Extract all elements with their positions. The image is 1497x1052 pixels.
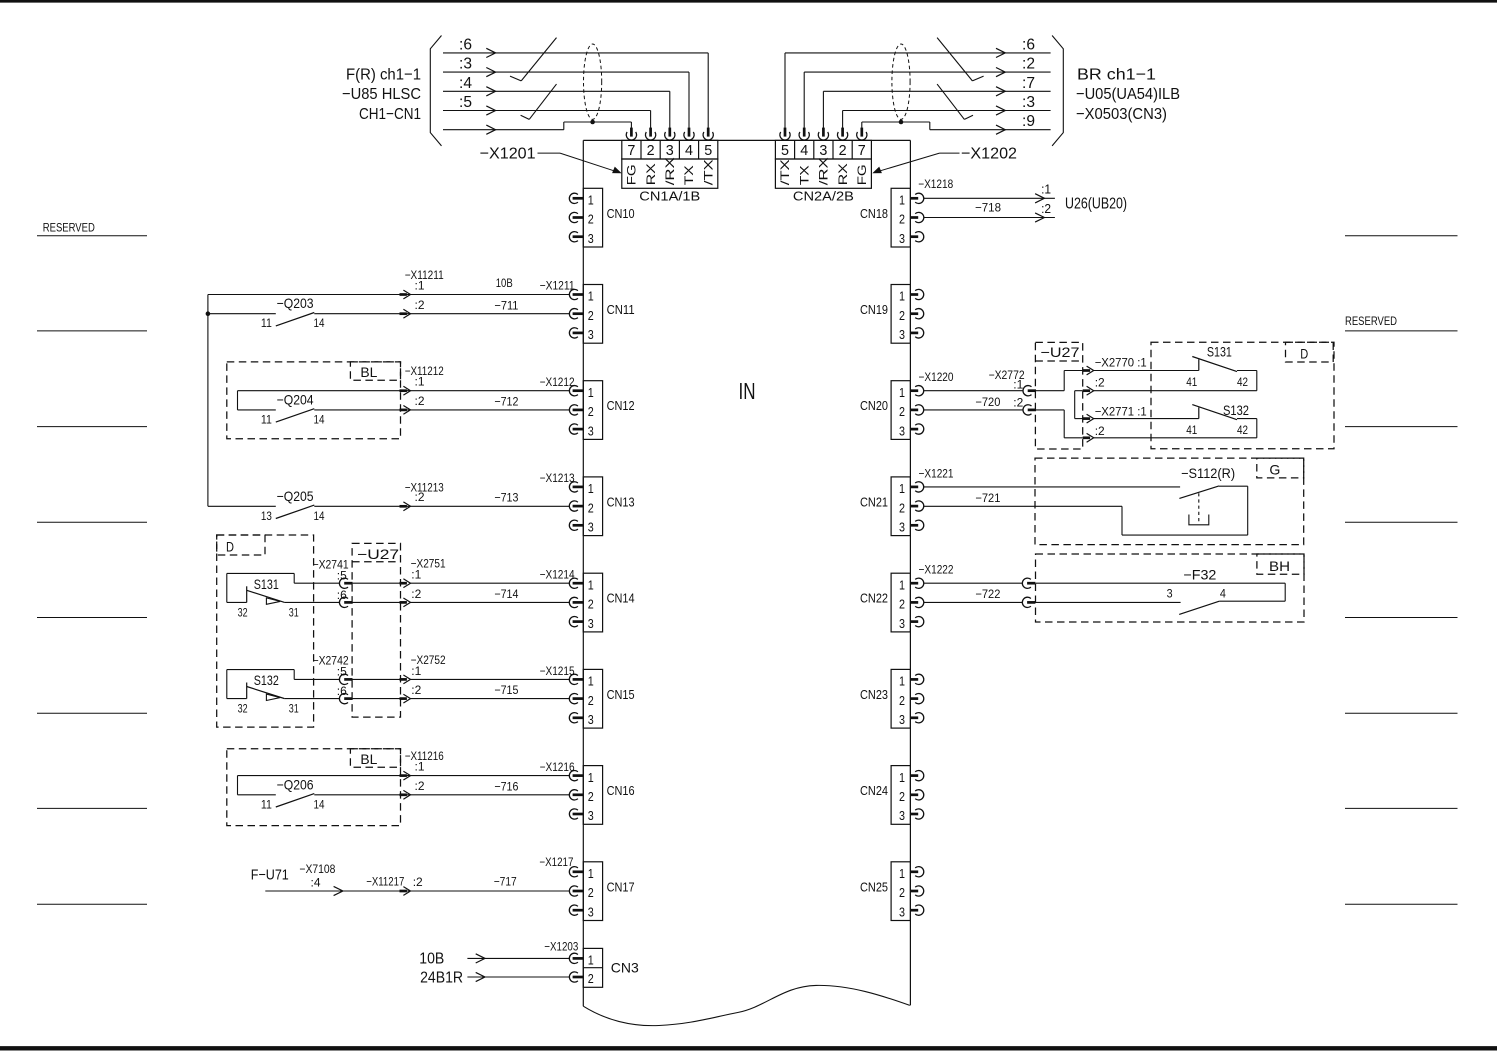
left reserved line 5	[37, 617, 147, 619]
X2751 plug :1	[400, 582, 407, 585]
fuse F32 wire upper	[1036, 582, 1286, 584]
svg-text:3: 3	[819, 143, 827, 159]
CN1A top pin 3	[665, 132, 675, 140]
svg-text:−715: −715	[494, 683, 518, 697]
left shield wire to pin7 FG	[443, 129, 564, 131]
wire CN21 pin2 to S112	[924, 505, 1122, 507]
wire X2741-X2751 pin2	[353, 601, 400, 603]
svg-text:3: 3	[899, 712, 905, 727]
fuse F32 blade	[1179, 601, 1219, 614]
connector CN19	[891, 285, 910, 344]
svg-text:D: D	[1300, 346, 1308, 362]
svg-text::1: :1	[411, 664, 421, 678]
svg-text:−X1201: −X1201	[480, 146, 536, 163]
CN2A top pin 2	[837, 132, 847, 140]
svg-text:CN12: CN12	[607, 399, 635, 413]
right wire :6 from pin5	[784, 53, 786, 128]
svg-text:2: 2	[899, 404, 905, 419]
svg-text:1: 1	[588, 770, 594, 785]
switch Q204	[238, 409, 276, 411]
connector CN18	[891, 188, 910, 247]
connector CN3	[583, 948, 602, 987]
svg-text::3: :3	[459, 56, 472, 73]
right shield ellipse	[892, 44, 910, 119]
svg-text:11: 11	[261, 318, 272, 330]
svg-text:1: 1	[899, 193, 905, 208]
svg-text:−X1217: −X1217	[539, 855, 573, 869]
wire X2771:1 to S132	[1094, 418, 1199, 420]
connector CN24	[891, 766, 910, 825]
svg-text:1: 1	[899, 289, 905, 304]
svg-text::2: :2	[411, 587, 421, 601]
svg-text:−X1218: −X1218	[918, 177, 953, 191]
left wire :3 to pin4	[443, 71, 689, 73]
svg-text:14: 14	[314, 511, 326, 523]
svg-text:2: 2	[899, 212, 905, 227]
BH label box	[1257, 554, 1304, 574]
dashed box G	[1035, 458, 1304, 544]
connector CN14	[583, 573, 602, 632]
U27 internal link 2	[1075, 390, 1083, 392]
BL upper label box	[350, 362, 400, 380]
svg-text:3: 3	[899, 904, 905, 919]
svg-text:G: G	[1269, 462, 1280, 478]
svg-text:CN25: CN25	[860, 880, 888, 894]
svg-text::2: :2	[415, 779, 425, 793]
svg-text:3: 3	[588, 423, 594, 438]
svg-text:F−U71: F−U71	[251, 866, 289, 883]
svg-text::1: :1	[415, 279, 425, 293]
svg-text:FG: FG	[855, 164, 869, 185]
svg-text:31: 31	[289, 704, 299, 716]
D right label box	[1286, 342, 1334, 362]
svg-text:2: 2	[588, 597, 594, 612]
switch S131 right	[1198, 359, 1200, 370]
svg-text:42: 42	[1237, 425, 1248, 437]
connector CN2A/2B pin number row	[775, 140, 871, 159]
svg-text:−Q206: −Q206	[277, 776, 314, 792]
CN1A/1B label box	[622, 159, 718, 188]
right twist mark pair 1	[937, 38, 972, 81]
svg-text:−Q205: −Q205	[277, 488, 314, 504]
svg-text::1: :1	[415, 760, 425, 774]
svg-text:3: 3	[666, 143, 674, 159]
wire X2752 to CN15 pin2	[411, 698, 570, 700]
wire X2742-X2752 pin1	[353, 678, 400, 680]
svg-text:U26(UB20): U26(UB20)	[1065, 196, 1127, 213]
connector CN21	[891, 477, 910, 536]
svg-text:10B: 10B	[419, 951, 444, 968]
U27 left label box	[352, 561, 400, 563]
dashed box D right	[1151, 342, 1334, 449]
wire S132 return to X2771:2	[1094, 437, 1257, 439]
svg-text:3: 3	[588, 904, 594, 919]
X2751 plug :2	[400, 601, 407, 604]
svg-text:F(R) ch1−1: F(R) ch1−1	[346, 66, 421, 83]
wire X2751 to CN14 pin2	[411, 601, 570, 603]
svg-text:−716: −716	[494, 779, 518, 793]
svg-text:2: 2	[588, 789, 594, 804]
U27 internal link 1	[1036, 390, 1064, 392]
svg-text:24B1R: 24B1R	[420, 970, 463, 987]
svg-text:3: 3	[899, 423, 905, 438]
dashed box BL upper	[227, 362, 401, 439]
X2771 plug :1	[1083, 417, 1090, 420]
svg-text:1: 1	[588, 481, 594, 496]
svg-text:2: 2	[899, 789, 905, 804]
svg-text:CN3: CN3	[611, 959, 639, 975]
svg-text:IN: IN	[739, 378, 756, 404]
wire CN16 pin1	[238, 775, 570, 777]
svg-text:TX: TX	[682, 165, 696, 185]
svg-text:−Q204: −Q204	[277, 391, 314, 407]
svg-text:2: 2	[899, 597, 905, 612]
svg-text::2: :2	[413, 875, 423, 889]
svg-text:2: 2	[588, 500, 594, 515]
BH socket pin2	[1022, 597, 1031, 607]
svg-text:11: 11	[261, 414, 272, 426]
svg-text::6: :6	[337, 588, 347, 602]
S112 linkage dashed	[1198, 493, 1200, 524]
CN2A cell divider 4	[851, 140, 853, 159]
left reserved line 7	[37, 807, 147, 809]
wire F-U71 to CN17 pin2	[265, 890, 569, 892]
switch Q205	[208, 505, 276, 507]
svg-text:CN24: CN24	[860, 784, 888, 798]
svg-text::5: :5	[459, 94, 472, 111]
svg-text:/TX: /TX	[778, 159, 792, 185]
svg-text::1: :1	[1041, 181, 1051, 196]
CN1A top pin 2	[645, 132, 655, 140]
X2741 socket :5	[339, 578, 348, 588]
svg-text:−S112(R): −S112(R)	[1181, 465, 1235, 481]
X2772 socket :2	[1023, 405, 1032, 415]
right reserved line 7	[1345, 807, 1458, 809]
svg-text::6: :6	[1022, 36, 1035, 53]
svg-text::5: :5	[337, 568, 347, 582]
left cable brace	[430, 36, 441, 146]
X2742 socket :5	[339, 674, 348, 684]
page top border bar	[0, 0, 1497, 3]
svg-text:/TX: /TX	[701, 159, 715, 185]
svg-text:41: 41	[1186, 425, 1197, 437]
svg-text:2: 2	[588, 308, 594, 323]
CN2A cell divider 3	[832, 140, 834, 159]
connector CN17	[583, 862, 602, 921]
connector CN15	[583, 669, 602, 728]
svg-text:−X1216: −X1216	[540, 760, 575, 774]
svg-text::2: :2	[415, 394, 425, 408]
svg-text:CN2A/2B: CN2A/2B	[793, 190, 854, 204]
D left label box	[217, 535, 265, 555]
svg-text:5: 5	[781, 143, 789, 159]
svg-text::9: :9	[1022, 113, 1035, 130]
svg-text:CN15: CN15	[607, 688, 635, 702]
right wire :2 from pin4	[803, 72, 805, 128]
CN1A top pin 5	[703, 132, 713, 140]
svg-text:−711: −711	[494, 298, 518, 312]
svg-text:−X1221: −X1221	[919, 466, 954, 480]
right reserved line 2	[1345, 330, 1458, 332]
wire S131 return to X2770:2	[1094, 390, 1257, 392]
svg-text:CN16: CN16	[607, 784, 635, 798]
svg-text:CN14: CN14	[607, 592, 635, 606]
svg-text:42: 42	[1237, 377, 1248, 389]
right reserved line 8	[1345, 903, 1458, 905]
wire CN22 pin2	[924, 601, 1023, 603]
svg-text:−Q203: −Q203	[277, 295, 314, 311]
svg-text:14: 14	[314, 318, 326, 330]
svg-text:2: 2	[839, 143, 847, 159]
svg-text:3: 3	[588, 616, 594, 631]
right wire :3 from pin2	[842, 111, 844, 129]
CN2A cell divider 1	[794, 140, 796, 159]
Q204 drop wire	[237, 391, 239, 410]
wire CN20 pin1 to X2772:1	[924, 390, 1023, 392]
svg-text:−X1222: −X1222	[919, 562, 954, 576]
CN2A cell divider 2	[813, 140, 815, 159]
left reserved line 3	[37, 426, 147, 428]
module IN right edge	[909, 140, 911, 1005]
svg-text:−720: −720	[975, 395, 1000, 409]
svg-text:41: 41	[1186, 377, 1197, 389]
svg-text:4: 4	[800, 143, 808, 159]
svg-text:FG: FG	[625, 164, 639, 185]
svg-text:−X1212: −X1212	[540, 375, 575, 389]
junction dot Q203 rail	[206, 311, 211, 316]
X2771 plug :2	[1083, 436, 1090, 439]
svg-text:S131: S131	[1207, 343, 1232, 359]
CN1A top pin 4	[684, 132, 694, 140]
svg-text::1: :1	[1013, 377, 1023, 391]
svg-text:−722: −722	[975, 587, 1000, 601]
svg-text:S132: S132	[1223, 402, 1249, 418]
BL lower label box	[350, 749, 400, 767]
svg-text:−718: −718	[975, 201, 1001, 215]
left reserved line 8	[37, 903, 147, 905]
left twist mark pair 2	[529, 84, 556, 119]
svg-text:14: 14	[314, 799, 326, 811]
svg-text:−713: −713	[494, 491, 518, 505]
dashed box U27 left	[352, 543, 400, 717]
wire X2770:1 to S131	[1094, 370, 1199, 372]
wire CN11 pin1 10B	[208, 294, 570, 296]
svg-text:10B: 10B	[496, 276, 513, 290]
svg-text:32: 32	[238, 704, 248, 716]
svg-text:S132: S132	[254, 672, 279, 688]
switch S132 left	[227, 669, 294, 671]
right cable brace	[1052, 36, 1063, 146]
svg-text:−X1214: −X1214	[540, 568, 575, 582]
svg-text:1: 1	[588, 289, 594, 304]
svg-text:CN20: CN20	[860, 399, 888, 413]
svg-text::5: :5	[337, 665, 347, 679]
CN2A top pin 7	[857, 132, 867, 140]
svg-text:−714: −714	[494, 587, 518, 601]
right wire :7 from pin3	[822, 91, 824, 128]
svg-text:CN19: CN19	[860, 303, 888, 317]
U27 internal link 3	[1036, 409, 1064, 411]
connector CN12	[583, 381, 602, 440]
svg-text:−X7108: −X7108	[299, 862, 335, 876]
svg-text::2: :2	[1095, 424, 1105, 438]
svg-text:RESERVED: RESERVED	[1345, 314, 1397, 328]
CN2A top pin 4	[799, 132, 809, 140]
svg-text::2: :2	[411, 683, 421, 697]
S112 actuator bracket	[1189, 515, 1209, 525]
wire CN18 pin2 to U26 :2	[924, 217, 1055, 219]
svg-text:2: 2	[899, 693, 905, 708]
svg-text:1: 1	[899, 385, 905, 400]
svg-text::6: :6	[459, 36, 472, 53]
connector CN25	[891, 862, 910, 921]
svg-text::2: :2	[415, 298, 425, 312]
wire 10B to CN3 pin1	[467, 957, 569, 959]
right reserved line 6	[1345, 712, 1458, 714]
svg-text:−F32: −F32	[1183, 567, 1216, 583]
wire X2752 to CN15 pin1	[411, 678, 570, 680]
svg-text:3: 3	[1167, 589, 1173, 601]
X1202 leader line	[940, 152, 960, 154]
right shield wire from pin7 FG	[861, 122, 863, 128]
wire CN18 pin1 to U26 :1	[924, 197, 1055, 199]
X2741 socket :6	[339, 597, 348, 607]
svg-text:32: 32	[238, 607, 248, 619]
svg-text:−U27: −U27	[357, 546, 399, 562]
fuse F32 wire lower	[1036, 601, 1181, 603]
left reserved line 2	[37, 330, 147, 332]
svg-text:−X0503(CN3): −X0503(CN3)	[1076, 106, 1167, 123]
svg-text:1: 1	[899, 770, 905, 785]
left shield junction dot	[590, 120, 595, 125]
switch S131 left	[227, 572, 294, 574]
svg-text:CN23: CN23	[860, 688, 888, 702]
dashed box U27 right	[1035, 342, 1082, 449]
svg-text:2: 2	[899, 500, 905, 515]
CN1A cell divider 3	[678, 140, 680, 159]
svg-text:2: 2	[647, 143, 655, 159]
svg-text:−X11217: −X11217	[366, 874, 404, 888]
dashed box BH	[1036, 554, 1305, 622]
svg-text:CN17: CN17	[607, 880, 635, 894]
svg-text::2: :2	[415, 490, 425, 504]
G label box	[1257, 458, 1304, 478]
switch S132 right	[1198, 407, 1200, 418]
svg-text::6: :6	[337, 684, 347, 698]
svg-text:−712: −712	[494, 395, 518, 409]
left wire :6 to pin5	[443, 52, 708, 54]
svg-text:1: 1	[899, 577, 905, 592]
svg-text:2: 2	[588, 404, 594, 419]
svg-text:CN18: CN18	[860, 207, 888, 221]
svg-text::4: :4	[311, 876, 321, 890]
svg-text::1: :1	[411, 568, 421, 582]
svg-text:3: 3	[899, 808, 905, 823]
svg-text:−X1203: −X1203	[544, 939, 578, 953]
svg-text:1: 1	[588, 674, 594, 689]
svg-text:−X2770 :1: −X2770 :1	[1095, 356, 1147, 370]
left wire :4 to pin3	[443, 90, 670, 92]
svg-text:3: 3	[588, 327, 594, 342]
svg-text::1: :1	[415, 375, 425, 389]
wire X2751 to CN14 pin1	[411, 582, 570, 584]
svg-text::2: :2	[1095, 376, 1105, 390]
X2742 socket :6	[339, 693, 348, 703]
svg-text:D: D	[226, 539, 234, 555]
connector CN10	[583, 188, 602, 247]
svg-text:−717: −717	[494, 874, 517, 888]
svg-text:2: 2	[588, 885, 594, 900]
svg-text:4: 4	[1220, 589, 1227, 601]
BH socket pin1	[1022, 578, 1031, 588]
left reserved line 1	[37, 235, 147, 237]
wire 24B1R to CN3 pin2	[467, 976, 569, 978]
switch Q203	[208, 313, 276, 315]
wire CN20 pin2 to X2772:2	[924, 409, 1023, 411]
svg-text:4: 4	[685, 143, 693, 159]
svg-text:7: 7	[627, 143, 635, 159]
svg-text:2: 2	[899, 308, 905, 323]
right shield junction dot	[899, 120, 904, 125]
svg-text:RX: RX	[836, 163, 850, 185]
right reserved line 4	[1345, 521, 1458, 523]
Q206 drop wire	[237, 776, 239, 795]
wire X2742-X2752 pin2	[353, 698, 400, 700]
U27 right label box	[1035, 360, 1082, 362]
svg-text:−X1211: −X1211	[540, 279, 575, 293]
CN2A/2B label box	[775, 159, 871, 188]
switch Q206	[238, 794, 276, 796]
wire CN12 pin1	[238, 390, 570, 392]
svg-text:−X1220: −X1220	[919, 370, 954, 384]
svg-text:RX: RX	[644, 163, 658, 185]
svg-text::3: :3	[1022, 94, 1035, 111]
X2772 socket :1	[1023, 386, 1032, 396]
switch S112(R)	[1179, 486, 1219, 499]
connector CN22	[891, 573, 910, 632]
wire CN21 pin1 to S112	[924, 486, 1181, 488]
X2752 plug :1	[400, 678, 407, 681]
svg-text:CH1−CN1: CH1−CN1	[359, 106, 421, 123]
connector CN13	[583, 477, 602, 536]
module IN bottom break wave	[583, 985, 910, 1025]
CN1A cell divider 1	[640, 140, 642, 159]
svg-text:1: 1	[588, 193, 594, 208]
svg-text:2: 2	[588, 693, 594, 708]
svg-text:BL: BL	[360, 364, 377, 380]
left reserved line 4	[37, 521, 147, 523]
CN1A cell divider 4	[698, 140, 700, 159]
svg-text:CN13: CN13	[607, 495, 635, 509]
svg-text:−U85 HLSC: −U85 HLSC	[342, 86, 421, 103]
svg-text::2: :2	[1022, 56, 1035, 73]
svg-text:/RX: /RX	[663, 157, 677, 185]
svg-text:1: 1	[899, 481, 905, 496]
svg-text:−X2771 :1: −X2771 :1	[1095, 405, 1147, 419]
svg-text:13: 13	[261, 511, 272, 523]
svg-text:3: 3	[588, 231, 594, 246]
svg-text:2: 2	[899, 885, 905, 900]
connector CN16	[583, 766, 602, 825]
svg-text:CN10: CN10	[607, 207, 635, 221]
svg-text::7: :7	[1022, 75, 1035, 92]
svg-text:1: 1	[899, 866, 905, 881]
svg-text:3: 3	[899, 327, 905, 342]
CN2A top pin 5	[780, 132, 790, 140]
svg-text:7: 7	[858, 143, 866, 159]
connector CN11	[583, 285, 602, 344]
svg-text:3: 3	[899, 616, 905, 631]
